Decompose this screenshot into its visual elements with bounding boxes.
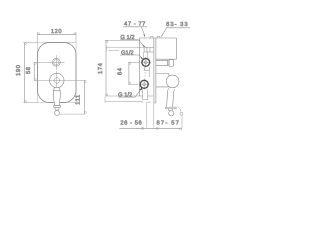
hidden pipe dashes <box>144 69 146 80</box>
lever arm <box>167 91 174 107</box>
wall plate edge-on <box>154 38 156 103</box>
reference line B <box>105 97 142 103</box>
upper port stubs <box>144 52 148 58</box>
dimension 58 line <box>33 62 35 80</box>
svg-text:64: 64 <box>116 67 123 75</box>
mid short vertical <box>148 70 150 77</box>
dimension 111 extension line bottom <box>60 113 85 115</box>
bottom outlet stub <box>143 89 148 100</box>
label G 1/2 top arrowhead <box>142 44 145 47</box>
top bumps <box>150 37 160 38</box>
phantom tip circle <box>180 112 183 115</box>
dimension 64 extension lines <box>128 62 140 84</box>
svg-text:63- 33: 63- 33 <box>166 21 188 28</box>
diverter knob cap <box>169 60 173 67</box>
dimension 64 line <box>128 62 130 84</box>
dimension 47-77 underline and leader <box>123 27 147 35</box>
svg-text:G 1/2: G 1/2 <box>120 34 134 41</box>
label G1/2 mid leader <box>120 55 142 58</box>
upper inlet inner <box>144 61 147 64</box>
box right edge <box>176 38 178 59</box>
dimension 174 terminators <box>106 40 108 42</box>
box bottom edge <box>156 58 177 60</box>
plate outer rectangle <box>38 43 77 103</box>
dimension 58 terminators <box>34 62 36 64</box>
svg-text:174: 174 <box>98 62 104 74</box>
plate rounded face <box>38 43 77 103</box>
svg-text:190: 190 <box>15 65 22 76</box>
bottom dims extension verticals <box>147 102 154 128</box>
lever ball tip <box>169 111 174 116</box>
dimension 111 line <box>83 81 85 114</box>
label G 1/2 bottom arrowhead <box>139 88 143 90</box>
handle flare <box>54 106 61 108</box>
dimension 63-33 leader <box>162 28 167 36</box>
body bottom edge <box>140 95 153 97</box>
right extension vertical <box>181 115 183 128</box>
dimension 120 extension lines <box>38 32 77 43</box>
mid neck box <box>144 67 149 71</box>
diverter knob neck <box>168 61 170 65</box>
bottom dims circle left <box>142 127 144 129</box>
reference line A <box>106 46 144 52</box>
body left edge <box>139 38 141 96</box>
lower inlet circle <box>139 79 150 90</box>
handle stem collar <box>53 88 60 91</box>
lever bell base <box>156 74 169 87</box>
lower handle inner circle <box>54 78 60 84</box>
phantom tip arc <box>178 107 181 112</box>
label G 1/2 top leader <box>120 40 144 46</box>
dimension 190 extension lines <box>23 43 37 103</box>
body top edge <box>140 37 177 39</box>
label G 1/2 bottom leader <box>118 90 141 97</box>
svg-text:26 - 56: 26 - 56 <box>120 119 142 126</box>
svg-text:111: 111 <box>75 94 81 104</box>
label G1/2 mid arrowhead <box>140 57 143 60</box>
extension stub <box>147 101 151 103</box>
upper knob circle <box>52 58 60 66</box>
bottom dims circle mid <box>156 127 158 129</box>
lower handle circle <box>50 73 64 87</box>
dimension 190 terminators <box>25 43 27 45</box>
lever flare <box>165 107 176 109</box>
lever neck <box>169 109 173 111</box>
lever ball joint <box>166 75 179 88</box>
dimension 120 terminators <box>38 33 40 35</box>
dimension 63-33 arrowhead <box>161 34 162 38</box>
handle bulb <box>53 91 60 106</box>
dimension 120 line <box>38 34 77 36</box>
upper inlet circle <box>141 57 152 68</box>
diverter knob stem <box>156 60 168 65</box>
bottom dims circle right <box>180 128 182 130</box>
dimension 174 line <box>105 40 107 96</box>
dimension 111 terminators <box>84 81 86 83</box>
handle ball tip <box>55 110 60 115</box>
dimension 63-33 underline <box>166 27 190 29</box>
dimension 190 line <box>24 43 26 103</box>
upper knob inner circle <box>54 60 59 65</box>
top G1/2 port block <box>144 48 154 53</box>
svg-text:120: 120 <box>51 28 62 35</box>
lower inlet inner <box>143 83 146 86</box>
dimension 174 extension lines <box>105 40 140 96</box>
upper knob circle crosshair <box>34 55 64 70</box>
handle neck <box>55 107 59 110</box>
lever socket <box>168 88 175 91</box>
svg-text:G1/2: G1/2 <box>121 50 134 57</box>
bottom dims main line <box>120 127 182 129</box>
dimension 64 terminators <box>129 62 131 64</box>
svg-text:87- 57: 87- 57 <box>156 119 180 126</box>
svg-text:58: 58 <box>25 66 32 74</box>
lower handle circle crosshair <box>34 71 85 92</box>
dimension 47-77 arrowhead <box>143 34 145 37</box>
